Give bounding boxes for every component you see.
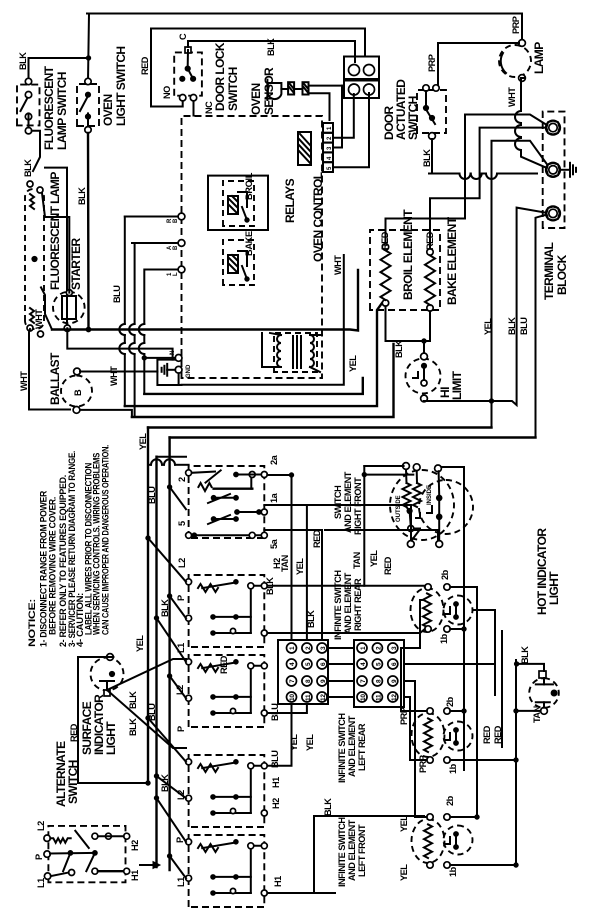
wire N to relay3 line — [144, 357, 175, 359]
svg-text:BLU: BLU — [112, 285, 122, 303]
rail R1 — [144, 378, 362, 394]
wire main top rail — [87, 14, 522, 44]
svg-text:2b: 2b — [445, 696, 455, 707]
svg-text:H1: H1 — [271, 777, 281, 788]
svg-text:7: 7 — [360, 679, 367, 683]
svg-text:L: L — [173, 272, 179, 276]
svg-text:H1: H1 — [130, 870, 140, 881]
svg-text:2: 2 — [305, 646, 312, 650]
svg-text:5: 5 — [177, 521, 187, 526]
svg-text:YEL: YEL — [305, 734, 315, 751]
svg-text:AND ELEMENT: AND ELEMENT — [347, 819, 357, 881]
wire B2 to RR right — [267, 586, 425, 587]
svg-text:WHT: WHT — [109, 366, 119, 386]
svg-text:BALLAST: BALLAST — [48, 352, 62, 405]
svg-text:BLOCK: BLOCK — [555, 254, 569, 295]
wire RR to RF link — [363, 466, 365, 586]
wire B4 to block left a — [267, 704, 291, 766]
svg-text:LEFT FRONT: LEFT FRONT — [357, 824, 367, 877]
svg-text:RED: RED — [219, 655, 229, 674]
svg-text:BLK: BLK — [323, 798, 333, 816]
rail R5 BLK — [170, 436, 536, 438]
wire relay2 to R3 — [129, 243, 135, 417]
svg-text:4: 4 — [289, 662, 296, 666]
svg-text:SWITCH: SWITCH — [333, 485, 343, 519]
wire hi-limit to YEL BLK lines — [424, 208, 550, 405]
lamp oven lamp — [499, 40, 531, 82]
svg-text:L2: L2 — [177, 558, 187, 568]
svg-text:LIGHT SWITCH: LIGHT SWITCH — [114, 47, 128, 126]
svg-text:RED: RED — [140, 56, 150, 75]
svg-text:OVEN: OVEN — [101, 94, 115, 126]
svg-text:BAKE ELEMENT: BAKE ELEMENT — [445, 216, 459, 305]
svg-text:3: 3 — [320, 646, 327, 650]
wire broil bottom to BLK junction — [385, 306, 387, 341]
wire w3 to RF bottom — [325, 530, 438, 540]
starter — [53, 290, 85, 332]
wire H495 — [473, 610, 496, 695]
resistor broil element — [381, 244, 391, 306]
svg-text:LIGHT: LIGHT — [547, 571, 561, 605]
svg-text:BLK: BLK — [507, 317, 517, 335]
svg-text:NO: NO — [162, 86, 172, 99]
svg-text:3: 3 — [391, 646, 398, 650]
svg-text:TAN: TAN — [352, 551, 362, 569]
svg-text:WHT: WHT — [507, 87, 517, 107]
switch infinite B4 — [186, 755, 268, 827]
svg-text:LAMP SWITCH: LAMP SWITCH — [55, 72, 69, 150]
wire block to LR left — [404, 697, 427, 760]
svg-text:H1: H1 — [273, 876, 283, 887]
switch alternate switch — [44, 826, 130, 882]
switch infinite B2 — [186, 575, 268, 647]
limiter left rear — [444, 722, 473, 751]
svg-text:11: 11 — [305, 694, 312, 701]
svg-text:B: B — [73, 389, 83, 396]
svg-text:LEFT REAR: LEFT REAR — [357, 723, 367, 771]
thermostat hi-limit — [406, 353, 441, 402]
svg-text:7: 7 — [289, 679, 296, 683]
switch infinite B3 — [186, 655, 268, 727]
relay terminal 2 — [178, 240, 185, 247]
wire broil top to V1 — [386, 115, 552, 244]
relay broil box — [223, 181, 254, 226]
rail YEL bank — [147, 428, 149, 784]
svg-text:BLK: BLK — [520, 646, 530, 664]
limiter left front — [444, 826, 473, 855]
svg-text:WHT: WHT — [19, 371, 29, 391]
svg-text:SWITCH: SWITCH — [406, 96, 420, 140]
svg-text:OVEN: OVEN — [249, 83, 263, 115]
svg-text:BLK: BLK — [306, 610, 316, 628]
junction dots on rails — [146, 473, 518, 867]
svg-text:2b: 2b — [440, 569, 450, 580]
wire block to LR right — [401, 648, 427, 711]
svg-text:5: 5 — [376, 662, 383, 666]
terminals left front — [427, 814, 450, 868]
ground oven control — [162, 364, 176, 376]
svg-text:4: 4 — [360, 662, 367, 666]
svg-text:BLK: BLK — [23, 159, 33, 177]
switch door actuated switch — [417, 85, 446, 140]
wire WHT from lamp pins down left side — [41, 287, 52, 329]
wire RR left down — [450, 628, 464, 630]
wire G stub to R0 — [178, 373, 180, 385]
wire diag BLK to B3 — [170, 676, 186, 698]
wire RF term1 feed — [364, 465, 403, 467]
junction relay3 N — [142, 356, 146, 360]
relay terminal 3 — [178, 266, 185, 273]
svg-text:WHT: WHT — [333, 255, 343, 275]
wire door lock NC stub — [193, 101, 195, 116]
svg-text:1b: 1b — [448, 866, 458, 877]
terminals left rear — [427, 708, 450, 763]
wire LR left down — [450, 759, 516, 761]
svg-text:INSIDE: INSIDE — [427, 485, 433, 505]
wire RF term2 feed — [364, 474, 413, 476]
wire relay3 up — [146, 269, 178, 271]
svg-text:AND ELEMENT: AND ELEMENT — [343, 471, 353, 533]
wire diag BLU to B3 — [157, 618, 187, 662]
svg-text:TERMINAL: TERMINAL — [542, 243, 556, 300]
svg-text:2: 2 — [376, 646, 383, 650]
svg-text:8: 8 — [305, 679, 312, 683]
wire starter to N box — [67, 328, 172, 359]
svg-text:BLK: BLK — [422, 149, 432, 167]
svg-text:2: 2 — [177, 477, 187, 482]
svg-text:YEL: YEL — [289, 734, 299, 751]
svg-text:6: 6 — [391, 662, 398, 666]
junction YEL hi-limit — [489, 399, 493, 403]
wire ballast to N box WHT — [80, 371, 157, 373]
N and GND box — [157, 355, 182, 385]
svg-text:INFINITE SWITCH: INFINITE SWITCH — [337, 713, 347, 783]
svg-text:BLK: BLK — [128, 691, 138, 709]
switch door lock switch — [174, 47, 202, 101]
svg-text:12: 12 — [391, 694, 398, 701]
wire H464 — [463, 625, 465, 770]
terminal pair box 2 — [344, 81, 379, 99]
wire RF right bottom — [441, 467, 464, 625]
wire bake bottom to BLK junction — [429, 311, 431, 341]
svg-text:P: P — [176, 726, 186, 732]
junction starter to WHT line — [86, 327, 91, 332]
wire relay1 to R2 — [119, 217, 125, 407]
svg-text:10: 10 — [289, 694, 296, 701]
svg-text:1: 1 — [360, 646, 367, 650]
wire BLK branch to fluorescent lamp — [32, 131, 40, 171]
svg-text:BLK: BLK — [394, 340, 404, 358]
svg-text:H2: H2 — [130, 840, 140, 851]
svg-text:AND ELEMENT: AND ELEMENT — [347, 715, 357, 777]
svg-text:10: 10 — [360, 694, 367, 701]
svg-text:RED: RED — [312, 529, 322, 548]
rail BLU bank — [155, 457, 157, 867]
svg-text:2a: 2a — [269, 454, 279, 465]
svg-text:BLK: BLK — [77, 187, 87, 205]
svg-text:BLU: BLU — [519, 317, 529, 335]
svg-text:B: B — [173, 218, 179, 223]
connector block left — [278, 640, 328, 704]
wire oven light switch feed — [88, 14, 89, 82]
svg-text:11: 11 — [376, 694, 383, 701]
note NOTICE block — [27, 445, 110, 647]
relay terminal 1 — [178, 213, 185, 220]
wire block to LF — [404, 681, 427, 817]
ballast — [61, 368, 92, 413]
wire YEL line to terminal block — [492, 141, 552, 428]
relay bake box — [223, 240, 254, 285]
svg-text:C: C — [178, 33, 188, 40]
svg-text:A: A — [167, 245, 173, 250]
wire BLK feed to fluorescent lamp switch — [29, 58, 89, 81]
terminal L2 — [546, 206, 561, 221]
lamp hot indicator — [529, 671, 559, 714]
svg-text:5: 5 — [305, 662, 312, 666]
svg-text:9: 9 — [320, 679, 327, 683]
svg-text:DOOR LOCK: DOOR LOCK — [213, 42, 227, 111]
terminals right rear — [425, 584, 450, 632]
svg-text:CAN CAUSE IMPROPER AND DANGERO: CAN CAUSE IMPROPER AND DANGEROUS OPERATI… — [100, 445, 110, 635]
element left rear — [412, 713, 445, 757]
wire bank to connector TAN — [267, 475, 291, 640]
svg-text:SWITCH: SWITCH — [226, 67, 240, 111]
wire LF right down — [450, 816, 477, 818]
wire bank to connector YEL — [264, 505, 307, 640]
svg-text:B: B — [173, 245, 179, 250]
svg-text:RELAYS: RELAYS — [283, 178, 297, 223]
wire indicator diagonal left BLK — [107, 690, 186, 748]
svg-text:8: 8 — [376, 679, 383, 683]
wire relay3 to R1 — [139, 270, 145, 394]
wire WHT main vertical down to oven control — [52, 270, 358, 331]
svg-text:RED: RED — [482, 725, 492, 744]
element right rear — [411, 588, 444, 632]
terminal pair box 1 — [344, 57, 379, 80]
svg-text:YEL: YEL — [295, 558, 305, 575]
svg-text:BLK: BLK — [128, 718, 138, 736]
wire RR right down — [450, 587, 477, 817]
wire diag YEL to B4 — [148, 718, 186, 762]
svg-text:SENSOR: SENSOR — [262, 67, 276, 115]
lamp surface indicator light — [91, 654, 124, 696]
svg-text:R: R — [167, 218, 173, 223]
switch fluorescent lamp switch — [17, 78, 40, 134]
elements dashed box — [370, 230, 440, 310]
oven control 5 pin connector — [323, 123, 333, 172]
wire LR right down — [450, 710, 464, 712]
svg-text:L2: L2 — [36, 821, 46, 831]
svg-text:YEL: YEL — [135, 635, 145, 652]
svg-text:AND ELEMENT: AND ELEMENT — [343, 572, 353, 634]
wire B2 to RR left — [267, 629, 425, 633]
svg-text:NOTICE:: NOTICE: — [27, 599, 37, 647]
svg-text:P: P — [176, 595, 186, 601]
svg-text:STARTER: STARTER — [69, 237, 83, 290]
svg-text:PRP: PRP — [511, 16, 521, 34]
wire PRP from door actuated switch to lamp — [438, 43, 519, 88]
svg-text:BEFORE REMOVING WIRE COVER.: BEFORE REMOVING WIRE COVER. — [47, 497, 57, 635]
wire WHT lamp to terminal block — [515, 78, 551, 170]
terminal block dashed box — [543, 112, 565, 228]
svg-text:BLK: BLK — [266, 38, 276, 56]
relay solid box — [208, 176, 268, 230]
element right front — [390, 469, 454, 540]
svg-text:RED: RED — [383, 556, 393, 575]
wire block links — [328, 648, 354, 697]
wire H502 — [501, 631, 503, 747]
wire starter top to lamp pin — [42, 193, 69, 293]
wire pin5 to terminal pairs — [333, 93, 369, 167]
limiter right front — [419, 480, 473, 534]
svg-text:12: 12 — [320, 694, 327, 701]
wire pin4 to oven sensor — [333, 86, 342, 148]
rail R4 YEL — [148, 426, 492, 428]
svg-text:BROIL ELEMENT: BROIL ELEMENT — [401, 209, 415, 300]
svg-text:OUTSIDE: OUTSIDE — [396, 495, 402, 522]
transformer — [262, 333, 322, 372]
svg-text:P: P — [34, 854, 44, 860]
junction fluor feed — [86, 56, 90, 60]
svg-text:TAN: TAN — [280, 554, 290, 572]
wire spur B5 — [314, 892, 335, 894]
svg-text:BLU: BLU — [270, 750, 280, 768]
connector hatched label — [298, 132, 311, 165]
wire WHT left edge to ballast — [29, 329, 70, 410]
svg-text:9: 9 — [391, 679, 398, 683]
svg-text:LIGHT: LIGHT — [104, 721, 118, 755]
wire diag BLK to B2 — [170, 596, 186, 618]
svg-text:BLU: BLU — [270, 703, 280, 721]
wire diag BLK to B1 — [170, 487, 186, 509]
terminals right front — [403, 463, 443, 548]
limiter right rear — [444, 596, 473, 625]
wire BLU top stub — [157, 456, 187, 458]
svg-text:LIMIT: LIMIT — [450, 370, 464, 400]
wire diag YEL to B2 — [148, 538, 186, 582]
svg-text:YEL: YEL — [399, 815, 409, 832]
svg-text:YEL: YEL — [369, 550, 379, 567]
wire bake top to V2 — [430, 128, 549, 249]
svg-text:SWITCH: SWITCH — [66, 760, 80, 804]
rail R0 GND box edge to oven control WHT — [182, 255, 344, 385]
wire H516 left — [515, 660, 517, 866]
wire YEL L-feed to B1 — [148, 459, 189, 465]
svg-text:5a: 5a — [269, 538, 279, 549]
wire B5 to LF boundary — [267, 816, 424, 893]
switch oven light switch — [77, 78, 99, 133]
svg-text:WHT: WHT — [34, 309, 44, 329]
rail R2 — [125, 303, 382, 406]
svg-text:YEL: YEL — [138, 433, 148, 450]
switch surface unit switch B1 — [186, 466, 268, 538]
svg-text:TAN: TAN — [532, 705, 542, 723]
wire w2 to RF left — [308, 505, 411, 540]
wire hot indicator TAN return — [516, 710, 541, 712]
arrow alternate switch to bank — [140, 862, 160, 869]
svg-text:H2: H2 — [271, 798, 281, 809]
wire BLK main from oven light switch — [87, 133, 90, 330]
resistor bake element — [425, 249, 435, 311]
fluorescent lamp tube — [25, 181, 44, 337]
wire B3 to block left b — [267, 704, 307, 713]
wire indicator feed loop — [78, 657, 148, 783]
wire diag BLK to B5 — [170, 856, 186, 878]
svg-text:1b: 1b — [439, 633, 449, 644]
wire relay2 up — [132, 242, 178, 244]
wire bank to connector RED — [264, 530, 322, 640]
svg-text:1b: 1b — [448, 763, 458, 774]
svg-text:BLK: BLK — [18, 52, 28, 70]
svg-text:BLK: BLK — [160, 599, 170, 617]
svg-text:OVEN CONTROL: OVEN CONTROL — [311, 172, 325, 262]
junction RF feeds — [362, 472, 366, 476]
wire BLK junction to hi-limit — [386, 341, 431, 353]
svg-text:YEL: YEL — [348, 355, 358, 372]
oven control dashed box — [182, 116, 323, 378]
terminal L1 — [546, 120, 561, 135]
svg-text:1: 1 — [289, 646, 296, 650]
wire hot indicator BLK feed — [517, 664, 544, 671]
svg-text:INFINITE SWITCH: INFINITE SWITCH — [333, 570, 343, 640]
svg-text:2b: 2b — [445, 795, 455, 806]
ground terminal block — [560, 163, 576, 177]
svg-text:PRP: PRP — [427, 54, 437, 72]
svg-text:BAKE: BAKE — [244, 231, 254, 256]
svg-text:INFINITE SWITCH: INFINITE SWITCH — [337, 817, 347, 887]
fixture solid box — [45, 168, 67, 330]
wire relay1 up — [125, 216, 178, 218]
terminal N — [546, 163, 561, 178]
svg-text:LAMP: LAMP — [532, 42, 546, 74]
wire diag BLU to B4 — [157, 776, 187, 798]
switch infinite B5 — [186, 835, 268, 907]
svg-text:N: N — [170, 351, 176, 355]
wire door lock C BLK wire — [188, 41, 355, 62]
wire BLK from door actuated switch — [428, 139, 537, 179]
svg-text:FLUORESCENT: FLUORESCENT — [42, 65, 56, 150]
rail BLK bank — [168, 438, 170, 871]
wire BLU line to terminal block — [536, 213, 552, 437]
rail R3 — [132, 344, 394, 417]
wire block stubs down — [404, 600, 495, 681]
svg-text:FLUORESCENT LAMP: FLUORESCENT LAMP — [48, 172, 62, 290]
door lock RED wire — [151, 29, 365, 107]
svg-text:PRP: PRP — [418, 755, 428, 773]
junction bake blk — [422, 339, 426, 343]
wire sensor to oven control — [309, 93, 330, 120]
wire pin2 to terminal pairs — [333, 94, 354, 138]
junction hot ind blk — [514, 662, 518, 666]
svg-text:1a: 1a — [269, 492, 279, 503]
svg-text:YEL: YEL — [399, 864, 409, 881]
wire sensor hatch to pair box2 — [309, 85, 343, 87]
svg-text:6: 6 — [320, 662, 327, 666]
svg-text:BLU: BLU — [147, 486, 157, 504]
svg-text:L1: L1 — [36, 878, 46, 888]
svg-text:BROIL: BROIL — [244, 172, 254, 200]
wire door lock NO stub — [151, 101, 183, 107]
wire diag BLU to B5 — [157, 798, 187, 842]
svg-text:YEL: YEL — [483, 318, 493, 335]
wire indicator diagonal right BLK — [107, 659, 186, 690]
junction hot ind tan — [514, 709, 518, 713]
svg-text:GND: GND — [186, 364, 192, 378]
oven sensor — [267, 80, 308, 100]
element left front — [412, 819, 445, 863]
svg-text:L1: L1 — [176, 877, 186, 887]
connector block right — [354, 640, 404, 707]
